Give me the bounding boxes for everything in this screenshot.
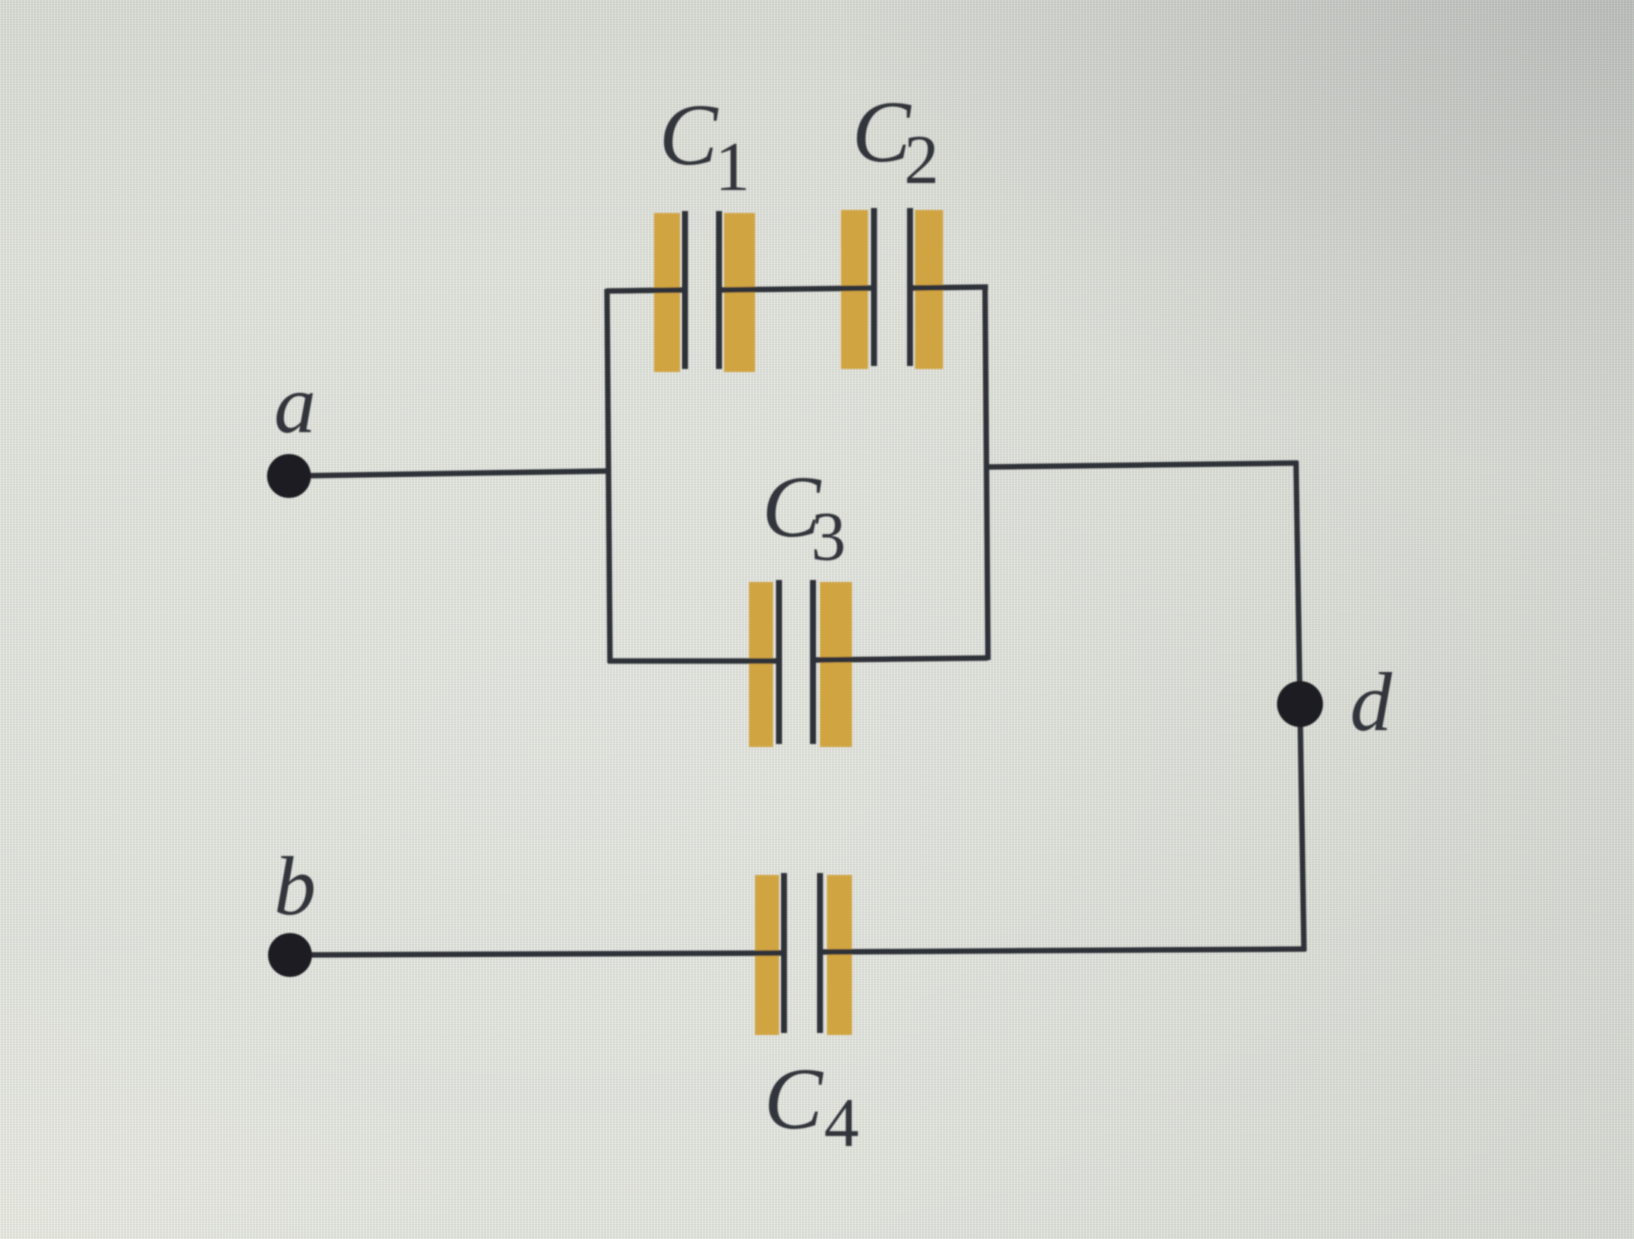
svg-text:1: 1 [715, 129, 750, 206]
wire loop top middle segment [720, 288, 873, 290]
label C1 [659, 87, 750, 206]
svg-text:b: b [274, 840, 316, 933]
label C3 [762, 459, 846, 576]
capacitor C3 [749, 580, 852, 747]
capacitor C4 [755, 873, 852, 1035]
wire loop top left segment [606, 290, 684, 291]
wire loop left vertical [607, 289, 610, 663]
wire loop right vertical [985, 285, 988, 660]
svg-text:C: C [764, 1051, 824, 1148]
wire a to loop [289, 471, 610, 476]
svg-text:d: d [1350, 656, 1393, 749]
svg-text:2: 2 [904, 122, 939, 199]
wire loop to node d [986, 463, 1298, 467]
svg-text:3: 3 [811, 499, 846, 576]
wire C4 to d corner [821, 949, 1306, 952]
label C2 [852, 84, 939, 199]
capacitor C2 [841, 208, 943, 369]
node d [1277, 681, 1323, 727]
svg-text:4: 4 [824, 1085, 859, 1162]
svg-text:C: C [852, 84, 912, 181]
wire b to d [290, 953, 783, 955]
wire loop top right segment [912, 287, 988, 288]
node a [267, 454, 311, 498]
label C4 [764, 1051, 859, 1162]
svg-text:C: C [659, 87, 719, 184]
wire loop bottom right segment [814, 658, 988, 660]
capacitor C1 [654, 211, 755, 372]
svg-text:a: a [274, 358, 316, 451]
node b [268, 933, 312, 977]
wire loop bottom left segment [608, 658, 778, 664]
wire d vertical [1296, 461, 1304, 951]
